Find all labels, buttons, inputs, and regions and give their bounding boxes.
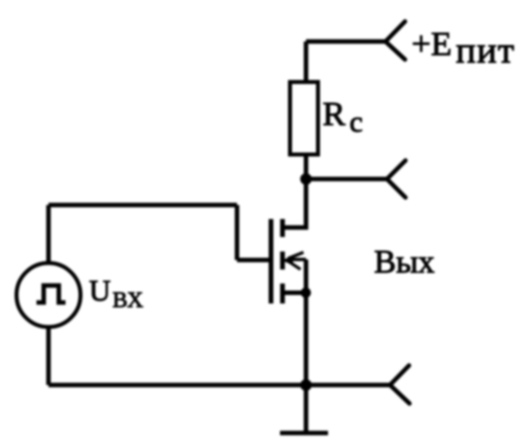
label Vykh (output): [374, 245, 435, 281]
label Uvx (input voltage): [89, 274, 143, 312]
wire: output node down to ground: [304, 385, 309, 433]
svg-text:пит: пит: [456, 31, 515, 72]
wire: vertical from top wire down to resistor top: [304, 42, 309, 83]
wire: resistor bottom to drain node: [304, 155, 309, 180]
terminal chevron upper output: [387, 161, 406, 198]
svg-text:+E: +E: [412, 25, 452, 63]
node: drain junction dot: [300, 173, 312, 185]
node: source junction dot: [301, 288, 311, 298]
pulse symbol inside source: [37, 286, 66, 303]
transistor VT1 channel top segment (drain): [280, 219, 285, 237]
wire: bottom return horizontal to output node: [49, 383, 307, 388]
wire: gate lead horizontal to gate: [237, 258, 271, 263]
wire: top supply horizontal from drain axis to +Epit terminal: [306, 39, 385, 44]
node: output junction dot: [300, 379, 312, 391]
source G1: pulse generator circle: [17, 263, 81, 327]
transistor VT1 gate line: [269, 219, 274, 304]
label +Epit: [412, 25, 516, 72]
svg-text:Вых: Вых: [374, 245, 435, 281]
svg-text:c: c: [350, 106, 363, 139]
ground: [280, 431, 328, 436]
wire: source tap horizontal: [283, 290, 307, 295]
wire: output node right to lower output terminal: [306, 383, 390, 388]
svg-text:ВХ: ВХ: [113, 287, 144, 312]
svg-text:R: R: [323, 95, 346, 133]
transistor VT1 channel middle segment (body): [280, 252, 285, 270]
wire: body to source junction: [304, 260, 309, 293]
terminal chevron lower output: [390, 366, 410, 404]
wire: source down to output node: [304, 293, 309, 385]
wire: input source top lead: [46, 205, 51, 264]
wire: drain node horizontal to output terminal (top): [306, 177, 387, 182]
terminal chevron +Epit: [386, 22, 406, 60]
wire: top input horizontal: [49, 203, 238, 208]
resistor Rc: [290, 82, 318, 155]
label Rc: [323, 95, 363, 139]
wire: gate lead vertical step: [235, 205, 240, 260]
transistor VT1 channel bottom segment (source): [280, 284, 285, 304]
svg-text:U: U: [89, 274, 111, 307]
wire: input source bottom lead: [46, 326, 51, 385]
transistor VT1 body arrow: [282, 252, 306, 269]
wire: drain node down to transistor drain tap: [283, 179, 306, 228]
